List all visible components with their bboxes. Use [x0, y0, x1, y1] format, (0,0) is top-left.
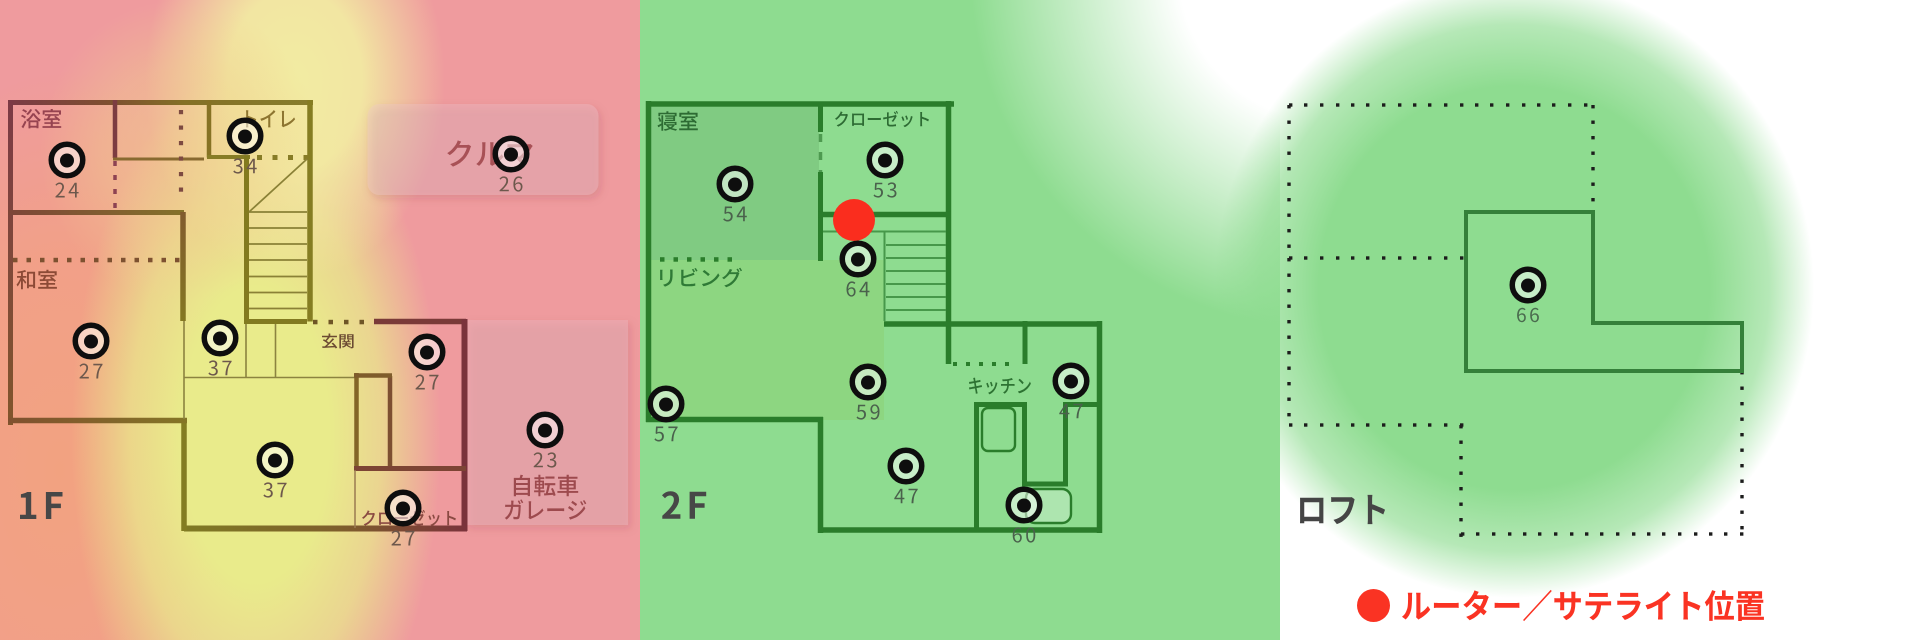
entrance dotted line 玄関	[313, 320, 364, 325]
2F bottom wall	[818, 527, 1102, 533]
2F outer top wall	[646, 101, 954, 107]
floor label 2F	[662, 491, 706, 519]
sensor point living-left value 57	[650, 388, 682, 420]
washitsu top dotted	[13, 258, 180, 263]
1F heatmap background	[0, 0, 640, 640]
closet thin left edge	[354, 470, 356, 528]
bathroom bottom wall	[8, 210, 184, 215]
loft dotted boundary	[1287, 103, 1743, 537]
thin wall below washitsu right	[183, 321, 185, 419]
loft green heat blob	[1214, 0, 1814, 598]
toilet door dotted	[257, 155, 309, 160]
sensor point bathroom value 24	[51, 144, 83, 176]
toilet left wall	[207, 100, 212, 158]
room label 玄関 entrance	[322, 334, 354, 349]
stairs treads	[249, 159, 307, 309]
room label 浴室 bathroom	[21, 109, 61, 128]
washroom dotted opening	[179, 110, 183, 192]
1F stairs right outer wall	[307, 100, 313, 322]
2F outer left wall	[646, 101, 652, 422]
bedroom right wall upper	[818, 104, 823, 132]
kitchen appliance	[982, 408, 1015, 451]
room label クローゼット closet 2F	[835, 111, 929, 127]
kitchen corridor bottom wall	[1022, 482, 1068, 487]
2F lower-left wall	[818, 417, 824, 533]
sensor point car value 26	[495, 138, 527, 170]
bathroom door dashed	[113, 161, 117, 212]
sensor point closet2f value 53	[869, 144, 901, 176]
stairs 2F treads	[886, 245, 946, 310]
kitchen left wall piece	[1023, 321, 1028, 364]
sensor point loft value 66	[1512, 269, 1544, 301]
sensor point landing value 64	[842, 243, 874, 275]
room label トイレ toilet	[246, 110, 295, 127]
stairs left wall	[244, 156, 249, 324]
sensor point entrance value 27	[411, 336, 443, 368]
label クルマ car	[447, 140, 533, 166]
sensor point garage value 23	[529, 414, 561, 446]
label 自転車 bicycle	[514, 475, 578, 496]
washitsu right wall	[180, 212, 186, 321]
2F mid wall	[884, 321, 1102, 327]
loft room solid walls	[1466, 212, 1742, 371]
bathtub	[1026, 489, 1071, 523]
floor label 1F	[20, 492, 63, 519]
under-stairs thin walls	[246, 324, 276, 377]
sensor point living-right value 59	[852, 366, 884, 398]
1F yellow heat zone	[71, 65, 441, 640]
kitchen right top wall	[1063, 402, 1102, 407]
sensor point bottomroom value 47	[890, 450, 922, 482]
1F orange heat wash	[0, 70, 275, 640]
1F outer top wall	[8, 100, 313, 105]
2F white corner blob	[970, 0, 1690, 330]
bedroom right wall lower	[818, 172, 823, 261]
bedroom bottom dotted	[660, 257, 732, 262]
bathroom right wall	[113, 100, 118, 158]
legend text ルーター／サテライト位置	[1402, 590, 1764, 621]
room label リビング living	[660, 268, 742, 287]
stairs 2F top line	[823, 231, 946, 233]
hall thin divider	[184, 377, 355, 379]
bedroom overlay	[651, 107, 819, 260]
closet nook left wall	[354, 373, 359, 470]
label ガレージ garage	[505, 499, 587, 519]
toilet bottom wall	[207, 155, 250, 159]
sensor point closet1f value 27	[387, 492, 419, 524]
washroom divider wall	[113, 158, 204, 161]
sensor point washitsu value 27	[75, 325, 107, 357]
floor label ロフト loft	[1300, 495, 1385, 524]
sensor point bedroom value 54	[719, 168, 751, 200]
closet top wall	[354, 466, 466, 471]
sensor point toilet value 34	[229, 120, 261, 152]
closet nook top wall	[354, 373, 392, 378]
router red dot	[833, 199, 875, 241]
sensor point kitchen-top value 47	[1055, 365, 1087, 397]
car area overlay クルマ	[368, 104, 599, 195]
garage right wall	[462, 319, 468, 531]
1F outer left wall	[8, 100, 13, 425]
1F lower-left wall	[181, 419, 187, 531]
sensor point hall value 37	[204, 322, 236, 354]
room label 和室 japanese room	[17, 270, 57, 289]
2F heatmap background	[640, 0, 1280, 640]
1F bottom wall	[184, 526, 467, 532]
loft background	[1280, 0, 1920, 640]
closet nook right wall	[388, 376, 393, 467]
living overlay	[651, 260, 884, 420]
sensor point room-center value 37	[259, 444, 291, 476]
washitsu bottom wall	[8, 418, 187, 424]
living bottom wall	[646, 417, 823, 423]
room label キッチン kitchen	[969, 378, 1031, 395]
kitchen corridor right wall	[1063, 402, 1068, 486]
entrance top wall	[374, 319, 466, 325]
kitchen counter top wall	[974, 402, 1027, 407]
stairs 2F left line	[884, 232, 886, 322]
2F closet bottom wall	[818, 212, 951, 218]
kitchen dotted opening	[953, 362, 1009, 366]
2F right wall upper	[946, 101, 952, 364]
stairs bottom wall	[244, 319, 307, 324]
room label クローゼット closet 1F	[362, 510, 456, 526]
sensor point bath2f value 60	[1008, 489, 1040, 521]
bedroom door dashed	[819, 134, 823, 172]
legend router dot	[1357, 589, 1390, 622]
room label 寝室 bedroom	[658, 111, 698, 131]
bicycle garage overlay	[466, 320, 628, 525]
kitchen corridor left wall	[1022, 404, 1027, 486]
kitchen left long wall	[974, 402, 979, 530]
2F right wall lower	[1097, 321, 1103, 533]
